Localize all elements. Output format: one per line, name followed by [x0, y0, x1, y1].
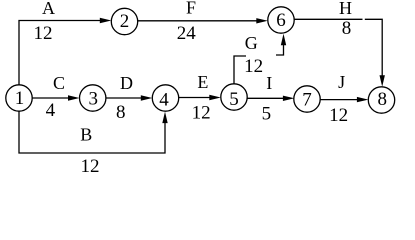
arrowhead I	[283, 96, 295, 101]
wire edge G (5 to 6)	[234, 44, 284, 84]
svg-text:5: 5	[229, 89, 239, 110]
wire edge A (1 to 2)	[19, 21, 100, 86]
node 6	[268, 7, 294, 33]
svg-text:J: J	[338, 72, 345, 92]
node 3	[80, 85, 106, 111]
svg-text:12: 12	[244, 56, 263, 77]
arrowhead F	[256, 18, 268, 23]
svg-text:12: 12	[329, 105, 348, 126]
svg-text:24: 24	[177, 23, 197, 44]
svg-text:8: 8	[342, 18, 352, 39]
wire edge I (5 to 7)	[247, 97, 283, 99]
svg-text:12: 12	[81, 156, 100, 175]
svg-text:B: B	[80, 125, 92, 145]
svg-text:1: 1	[15, 88, 25, 109]
svg-text:7: 7	[302, 89, 312, 110]
arrowhead A	[100, 18, 112, 23]
node 1	[6, 85, 32, 111]
arrowhead H	[380, 75, 385, 87]
svg-text:12: 12	[192, 102, 211, 123]
wire edge D (3 to 4)	[106, 97, 141, 99]
wire edge C (1 to 3)	[32, 97, 68, 99]
svg-text:G: G	[245, 33, 258, 53]
svg-text:4: 4	[159, 90, 169, 111]
svg-text:2: 2	[120, 11, 130, 32]
arrowhead J	[357, 97, 369, 102]
svg-text:4: 4	[46, 100, 56, 121]
svg-text:8: 8	[116, 102, 126, 123]
arrowhead E	[209, 95, 221, 100]
wire edge F (2 to 6)	[138, 20, 257, 22]
svg-text:3: 3	[88, 88, 98, 109]
svg-text:5: 5	[262, 103, 272, 124]
svg-text:H: H	[339, 0, 352, 18]
node 2	[111, 8, 137, 34]
arrowhead G	[281, 34, 286, 46]
wire edge J (7 to 8)	[320, 99, 357, 101]
arrowhead D	[141, 95, 153, 100]
svg-text:A: A	[42, 0, 55, 18]
svg-text:8: 8	[378, 89, 388, 110]
svg-text:D: D	[120, 73, 133, 93]
svg-text:E: E	[197, 72, 208, 92]
arrowhead C	[68, 95, 80, 100]
node 8	[368, 87, 394, 113]
node 7	[294, 86, 320, 112]
svg-text:C: C	[53, 73, 65, 93]
wire edge E (4 to 5)	[179, 97, 210, 99]
node 4	[152, 85, 178, 111]
node 5	[221, 84, 247, 110]
svg-text:6: 6	[276, 10, 286, 31]
svg-text:F: F	[186, 0, 196, 18]
svg-text:12: 12	[34, 23, 53, 44]
arrowhead B	[162, 112, 167, 124]
svg-text:I: I	[266, 73, 272, 93]
wire edge B (1 to 4)	[19, 111, 165, 153]
wire edge H (6 to 8)	[294, 19, 382, 76]
